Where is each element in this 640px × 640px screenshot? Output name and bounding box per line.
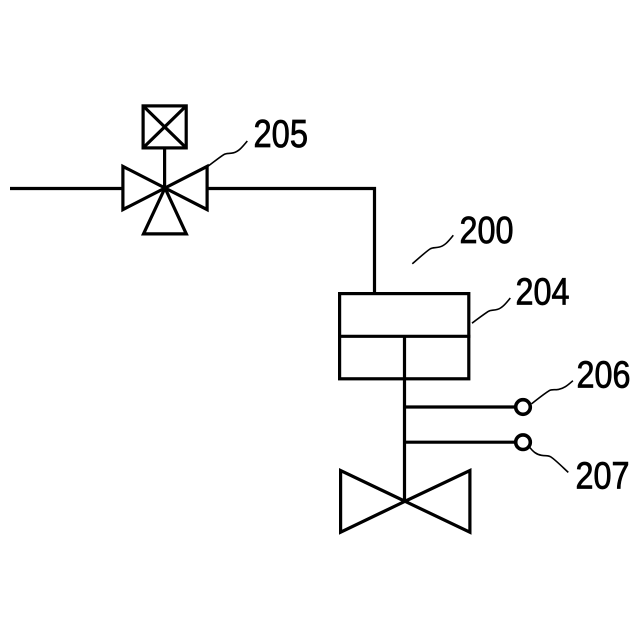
svg-text:206: 206 — [577, 355, 631, 397]
svg-text:204: 204 — [516, 272, 570, 314]
svg-text:205: 205 — [254, 113, 309, 156]
svg-text:207: 207 — [576, 456, 630, 498]
svg-text:200: 200 — [460, 210, 514, 252]
